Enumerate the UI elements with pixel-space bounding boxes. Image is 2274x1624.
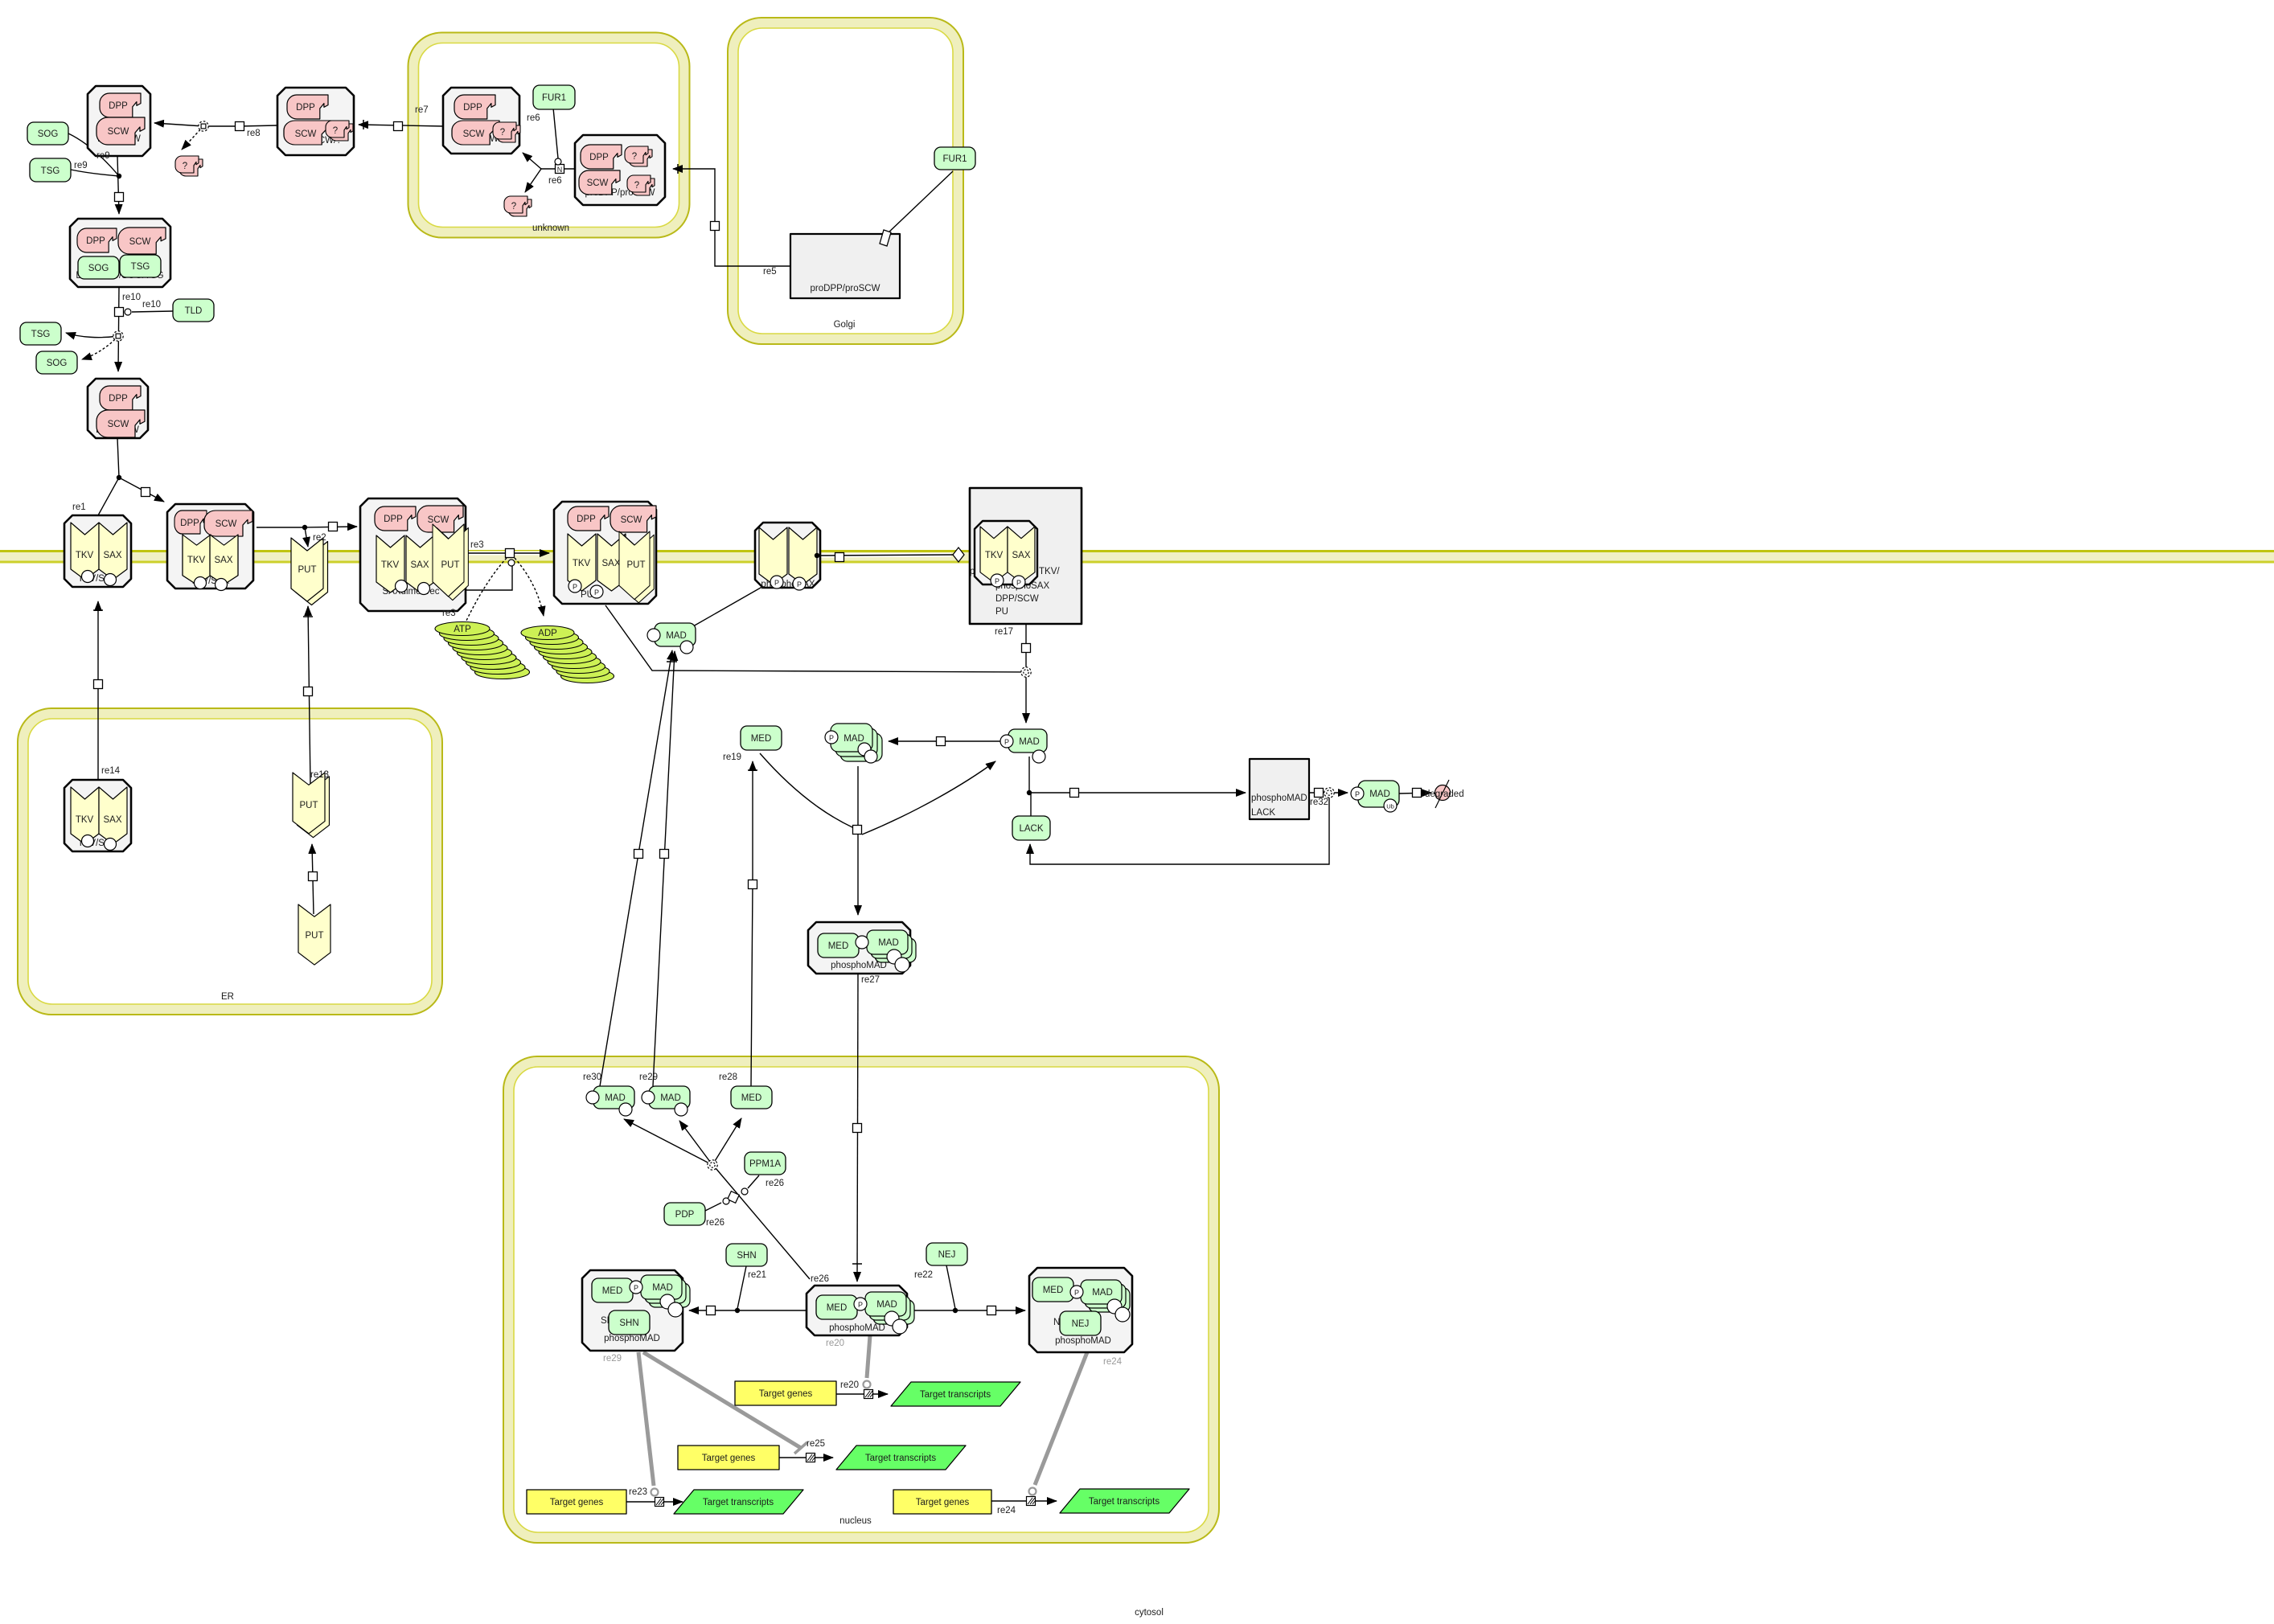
svg-text:SCW: SCW [108,127,129,137]
protein ? tag [625,146,652,166]
svg-text:TSG: TSG [131,262,150,272]
species SHN [726,1244,767,1266]
svg-text:DPP: DPP [577,515,596,524]
wire gray re25 end bar [794,1442,807,1454]
wire re16 MAD diagonal halo [696,556,815,625]
wire re29 MAD transport [653,651,675,1086]
species MED in complex [592,1278,633,1302]
wire re3 main [466,552,549,554]
membrane top line [0,550,2274,552]
protein DPP [174,511,207,534]
node re26 square [728,1191,740,1204]
RNA re25 Target transcripts [836,1446,966,1470]
svg-text:MAD: MAD [660,1093,681,1103]
svg-text:P: P [594,588,599,597]
wire re9 SOG curve [68,133,119,176]
wire re23 transcription [626,1501,683,1503]
wire re28 MED transport [751,761,753,1086]
svg-text:DPP: DPP [86,236,105,246]
svg-text:DPP: DPP [589,153,609,162]
svg-text:PUT: PUT [306,931,324,941]
svg-text:SHN: SHN [737,1251,756,1261]
svg-text:NEJ: NEJ [1072,1319,1090,1329]
wire re24 transcription [991,1500,1057,1502]
node re3 catalysis circle [508,560,515,566]
complex C3 DPP/SCW lower [88,379,148,438]
svg-text:?: ? [500,128,505,137]
wire re19 curve to P-MAD [862,761,995,835]
species NEJ in complex [1060,1311,1101,1335]
protein DPP [100,93,141,117]
wire re9 main [117,156,119,214]
protein ? tag [493,122,520,142]
svg-text:re3: re3 [442,609,456,618]
wire re31 main [1029,792,1246,794]
svg-text:re22: re22 [914,1270,933,1280]
wire re2 PUT branch [305,527,308,547]
complex C1 DPP/SCW [88,86,150,156]
node re16 square [835,553,844,562]
wire re10 TLD catalysis [132,311,173,312]
svg-text:SHN: SHN [619,1318,638,1328]
node re26 dissociation circle [708,1160,717,1170]
wire re31 from P-MAD [1028,757,1030,793]
svg-text:P: P [829,734,834,742]
wire re26 product MAD2 [679,1121,712,1165]
wire re21 SHN [737,1266,746,1309]
wire re3 main halo [466,552,545,556]
receptor PUT membrane dimer [291,538,328,605]
wire re10 product SOG [82,336,118,359]
svg-text:?: ? [634,181,639,191]
species PPM1A [745,1152,786,1175]
svg-text:Target genes: Target genes [550,1498,604,1507]
protein DPP [375,506,416,531]
svg-text:Target transcripts: Target transcripts [865,1454,936,1463]
node re17 dissociation circle [1021,667,1031,677]
node nuclear right square [987,1306,996,1315]
protein SCW [96,410,145,437]
node re2 junction dot [302,525,307,530]
wire re6 FUR1 catalysis [553,108,558,158]
node re6 catalysis circle [555,158,561,165]
svg-text:TSG: TSG [41,166,60,176]
complex TKV/SAX in ER [64,780,131,851]
svg-text:DPP: DPP [109,101,128,111]
node re30 square [634,850,643,859]
svg-text:LACK: LACK [1019,824,1043,834]
svg-text:DPP: DPP [109,394,128,404]
wire re16 membrane [820,555,953,556]
svg-text:MED: MED [828,941,849,951]
svg-text:Target transcripts: Target transcripts [703,1498,774,1507]
node re1 square [142,488,150,497]
svg-text:re26: re26 [766,1179,784,1188]
wire gray re23 activation [638,1352,654,1486]
svg-text:PPM1A: PPM1A [749,1159,781,1169]
species SOG product [36,351,77,374]
wire re31 from LACK [1030,793,1032,816]
complex C12 phosphoTKV/phosphoSAX [755,523,820,590]
svg-text:MAD: MAD [844,734,864,744]
svg-text:MAD: MAD [878,938,899,948]
state circles [195,577,207,589]
node gray ring re24 [1029,1488,1036,1495]
species phosphoMAD single [1000,729,1047,763]
P circles [770,576,783,588]
species MAD stack in complex [875,938,916,962]
node membrane diamond [953,547,964,562]
wire re6 main [541,168,575,170]
gene re24 Target genes [893,1490,991,1514]
complex C8 TKV/SAX [64,515,131,587]
wire nuclear reaction right [907,1310,1025,1311]
svg-text:phosphoMAD: phosphoMAD [1251,794,1307,803]
complex C13 phosphoTKV/phosphoSAX/DPP/SCW/PU [970,488,1082,624]
svg-text:PUT: PUT [298,565,317,575]
svg-text:P: P [634,1284,638,1292]
species MAD stack in complex [649,1283,690,1307]
svg-text:P: P [573,583,577,591]
wire re1 to complex [119,478,164,502]
node re23 hatch square [655,1498,665,1507]
svg-text:P: P [1074,1289,1079,1297]
wire gray re24 activation [1035,1352,1087,1485]
protein DPP [454,95,495,119]
svg-text:re29: re29 [603,1354,622,1364]
protein SCW [204,511,252,536]
node re25 hatch square [807,1454,816,1462]
node Golgi anchor parallelogram [880,230,891,246]
svg-text:P: P [774,579,779,587]
svg-text:re27: re27 [861,975,880,985]
protein SCW [118,228,166,254]
wire re3 catalyst [466,566,512,590]
svg-text:MAD: MAD [1369,789,1390,799]
svg-text:ATP: ATP [454,625,471,634]
node re24 hatch square [1027,1497,1036,1506]
wire re6 product ? [525,169,541,192]
node nuclear left square [707,1306,716,1315]
complex C18 phosphoMAD/LACK box [1250,759,1309,819]
receptor SAX [210,535,238,584]
svg-text:re23: re23 [629,1487,647,1497]
svg-text:TSG: TSG [31,330,51,339]
svg-text:LACK: LACK [1251,808,1275,818]
state circles [82,571,94,583]
wire re20 transcription [836,1393,888,1395]
svg-text:P: P [858,1301,863,1309]
node re31 square [1070,789,1079,798]
svg-text:TKV: TKV [381,560,400,570]
svg-text:re8: re8 [247,129,261,138]
inner complex TKV/SAX [975,521,1037,584]
node PDP catalysis circle [723,1198,729,1204]
svg-text:PUT: PUT [441,560,460,570]
species MAD stack in complex [1089,1288,1130,1312]
wire re26 product MED [712,1118,741,1165]
node re13 lower square [309,872,318,881]
receptor TKV [376,535,404,593]
svg-text:cytosol: cytosol [1135,1608,1164,1618]
protein DPP [100,386,141,410]
species phosphoMAD trimer stack [825,724,882,763]
species FUR1 unknown [533,85,575,109]
node re8 truncation circle [199,121,208,131]
svg-text:SCW: SCW [215,519,237,529]
svg-text:MAD: MAD [666,631,687,641]
membrane band [0,550,2274,564]
node re31 junction dot [1027,790,1032,795]
complex C2 DPP/SCW/SOG/TSG [70,219,170,287]
complex C17 NEJ/phosphoMAD [1029,1268,1132,1352]
protein ? tag2 [627,175,655,195]
wire re3 ATP [466,558,507,622]
svg-text:TKV: TKV [573,559,591,568]
svg-text:re24: re24 [1103,1357,1123,1367]
svg-text:SAX: SAX [103,815,121,825]
species NEJ [926,1243,967,1265]
complex C11 phosphorylated receptor complex [554,502,656,604]
wire re2 main [257,527,357,527]
wire re16 membrane halo [820,555,951,556]
svg-text:Target genes: Target genes [759,1389,813,1399]
svg-text:phosphoMAD: phosphoMAD [604,1334,660,1343]
wire gray re25 activation [643,1352,801,1448]
wire re14 transport [97,601,99,780]
receptor SAX [789,527,817,584]
svg-text:?: ? [333,126,338,136]
svg-text:re1: re1 [72,502,86,512]
P circles [991,574,1004,587]
svg-text:SCW: SCW [587,178,609,188]
protein SCW [452,121,499,145]
node re5 transport bar [677,164,679,174]
receptor TKV [71,787,99,844]
svg-text:re32: re32 [1310,798,1328,807]
svg-text:phosphoMAD: phosphoMAD [829,1323,885,1333]
svg-text:TKV: TKV [76,815,94,825]
node re9 junction dot [117,174,121,178]
species SOG [27,122,68,145]
node re7 transport bar [363,120,364,129]
svg-text:FUR1: FUR1 [542,93,566,103]
membrane bottom line [0,561,2274,564]
svg-text:SCW: SCW [428,515,449,525]
node re28 square [749,880,757,889]
svg-text:?: ? [183,162,187,171]
svg-text:MAD: MAD [605,1093,626,1103]
wire re25 transcription [779,1457,833,1458]
svg-text:Target transcripts: Target transcripts [920,1390,991,1400]
node re27 square [853,1124,862,1133]
receptor SAX [99,523,127,580]
protein proDPP [581,145,622,169]
wire re10 main [118,287,119,371]
node MED transport bar [748,769,757,771]
wire re26 product MAD1 [624,1119,712,1165]
svg-text:re9: re9 [96,151,110,161]
svg-text:unknown: unknown [532,224,569,233]
complex C6 proDPP/proSCW [575,135,665,205]
svg-text:DPP: DPP [463,103,482,113]
wire re17 vertical [1025,624,1027,723]
svg-text:DPP: DPP [384,515,403,524]
wire Golgi FUR1 catalysis [887,171,953,234]
wire re9 TSG curve [71,170,119,176]
protein DPP [77,228,117,252]
svg-text:SCW: SCW [108,420,129,429]
svg-text:TKV: TKV [187,556,206,565]
svg-text:Target genes: Target genes [702,1454,756,1463]
node re1 junction dot [117,475,121,480]
svg-text:TKV/: TKV/ [1039,567,1060,576]
svg-text:MAD: MAD [876,1300,897,1310]
svg-text:?: ? [511,202,516,211]
svg-text:MED: MED [1043,1286,1064,1295]
species degraded [1425,780,1464,808]
species TSG in complex [120,255,161,277]
node nuclear left dot [735,1308,740,1313]
wire re13 upper transport [308,606,310,785]
svg-text:MED: MED [751,734,772,744]
svg-text:SCW: SCW [295,129,317,139]
species TLD [173,299,214,322]
svg-text:PUT: PUT [627,560,646,570]
svg-text:P: P [1016,579,1021,587]
node re6 square [556,165,564,174]
wire re26 PDP catalysis [705,1203,721,1211]
node re32 square [1315,789,1324,798]
svg-text:re26: re26 [706,1218,724,1228]
svg-text:P: P [1355,790,1360,798]
svg-text:MED: MED [602,1286,623,1296]
compartment ER [18,708,442,1015]
svg-text:re19: re19 [723,753,741,762]
node re5 square [711,222,720,231]
protein SCW [610,506,656,532]
receptor TKV [71,523,99,580]
svg-text:SOG: SOG [88,264,109,273]
node re9 square [115,193,124,202]
wire nuclear reaction left [689,1310,807,1311]
P circles [568,580,581,593]
state circles [396,580,408,593]
complex C5 DPP/SCW/? [443,88,520,154]
svg-text:N: N [557,166,563,174]
protein ? tag [326,121,353,141]
complex C9 DPP/SCW/TKV/SAX [167,504,253,591]
svg-text:MED: MED [741,1093,762,1103]
svg-text:NEJ: NEJ [938,1250,956,1260]
protein ? free in unknown [504,196,532,216]
species SOG in complex [78,256,119,279]
species MAD cytosol [647,623,696,654]
RNA re23 Target transcripts [674,1490,803,1514]
node re2 square [329,523,338,531]
node re16 junction dot [815,553,819,558]
svg-text:Target transcripts: Target transcripts [1089,1497,1160,1507]
svg-text:re28: re28 [719,1072,737,1082]
RNA re20 Target transcripts [891,1382,1020,1406]
svg-text:re6: re6 [548,176,562,186]
wire re33 degradation [1399,793,1431,794]
receptor PUT ER lower [298,904,330,965]
svg-text:re3: re3 [470,540,484,550]
svg-text:SAX: SAX [214,556,232,565]
svg-text:TLD: TLD [185,306,203,316]
receptor TKV [568,534,596,591]
wire re1 vertical [98,438,119,515]
svg-text:Target genes: Target genes [916,1498,970,1507]
svg-text:SAX: SAX [103,551,121,560]
species PDP [664,1203,705,1225]
complex C4 DPP/SCW/? [277,88,354,155]
node re3 square [506,549,515,558]
svg-text:MED: MED [827,1303,848,1313]
node re20 hatch square [864,1390,874,1399]
node re33 square [1413,789,1422,798]
node re10 square [115,308,124,317]
complex C15 phosphoMAD nuclear [807,1286,914,1335]
complex C14 phosphoMAD/MED cytosol [808,922,916,974]
wire re5 transport [673,169,790,266]
node re13 transport bar [303,616,313,617]
wire gray re20 activation [867,1335,870,1378]
receptor SAX [406,535,434,593]
protein ? free near re8 [175,156,203,176]
svg-text:Ub: Ub [1386,803,1394,810]
svg-text:P: P [797,580,802,588]
node re7 square [394,122,403,131]
svg-text:PDP: PDP [675,1210,695,1220]
protein SCW [96,117,145,145]
node re10 truncation circle [113,331,123,341]
wire re13 lower transport [312,844,314,914]
node re14 transport bar [93,609,103,611]
wire re17 reactant [605,605,1026,672]
species MED in complex [818,933,859,958]
species MED nucleus [731,1086,772,1109]
complex C16 SHN/phosphoMAD [582,1270,690,1351]
svg-text:DPP: DPP [296,103,315,113]
protein SCW [284,121,331,145]
protein DPP [568,506,609,531]
svg-text:re29: re29 [639,1072,658,1082]
compartment nucleus [503,1056,1219,1543]
svg-text:TKV: TKV [76,551,94,560]
svg-text:re10: re10 [122,293,141,302]
node gray ring re23 [651,1489,659,1496]
svg-text:re20: re20 [826,1339,844,1348]
node re14 square [94,680,103,689]
svg-text:MAD: MAD [1019,737,1040,747]
svg-text:re25: re25 [807,1439,825,1449]
receptor PUT in complex [433,524,468,601]
svg-text:nucleus: nucleus [839,1516,872,1526]
svg-text:phosphoMAD: phosphoMAD [1055,1336,1111,1346]
node re8 square [236,122,244,131]
receptor SAX [1008,527,1035,583]
RNA re24 Target transcripts [1060,1489,1189,1513]
species MAD nucleus 1 [586,1086,634,1116]
complex C10 DPP/SCW/TKV/SAX/PUT [360,498,468,611]
svg-text:re2: re2 [313,533,326,543]
svg-text:Golgi: Golgi [834,320,856,330]
wire re6 product complex [523,153,541,169]
svg-text:degraded: degraded [1425,789,1464,799]
molecule ATP stack [435,622,530,679]
